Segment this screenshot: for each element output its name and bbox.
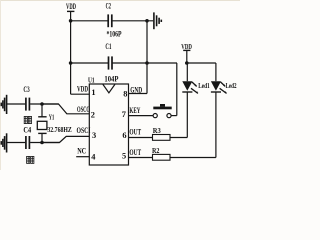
svg-text:32.768HZ: 32.768HZ [47, 125, 71, 134]
glyph box annotation below C3 [24, 116, 31, 123]
capacitor C1 [104, 42, 118, 84]
resistor R2 [152, 146, 216, 160]
diode LED2 [211, 63, 237, 158]
svg-text:VDD: VDD [66, 2, 76, 11]
svg-text:4: 4 [91, 152, 96, 161]
capacitor C4 [23, 126, 31, 150]
push button S1 [153, 104, 177, 118]
wire VDD branch to LED2 [187, 62, 216, 64]
node junction VDD branch [185, 61, 189, 65]
GND rail (vertical, right of IC) [146, 21, 148, 94]
pin 3 OSCI wire [42, 136, 89, 142]
svg-text:7: 7 [122, 110, 126, 119]
svg-text:Led1: Led1 [198, 82, 210, 90]
svg-text:VDD: VDD [181, 42, 192, 51]
ground (left of C4) [1, 133, 6, 152]
power symbol VDD (right) [181, 42, 192, 63]
wire key riser [176, 63, 178, 116]
svg-text:5: 5 [122, 152, 126, 161]
svg-text:KEY: KEY [129, 106, 140, 115]
svg-text:Led2: Led2 [226, 82, 237, 90]
node junction GND rail / C2 [145, 19, 149, 23]
window edge left [0, 0, 1, 170]
svg-text:U1: U1 [88, 75, 95, 84]
svg-text:6: 6 [122, 131, 126, 140]
svg-text:C4: C4 [23, 126, 31, 135]
svg-text:VDD: VDD [77, 84, 88, 93]
svg-text:C2: C2 [106, 1, 111, 10]
svg-text:104P: 104P [104, 75, 118, 84]
svg-text:OUT: OUT [129, 148, 141, 157]
node junction VDD rail / C1 [69, 61, 73, 65]
wire C4 to Y1 node [30, 142, 59, 144]
diode LED1 [182, 63, 210, 138]
svg-text:NC: NC [77, 147, 86, 156]
wire C3 to Y1 node [30, 103, 58, 105]
svg-text:1: 1 [91, 88, 95, 97]
svg-text:3: 3 [92, 131, 96, 140]
crystal Y1 [37, 104, 72, 143]
svg-text:8: 8 [123, 90, 127, 99]
node junction GND rail / C1 [145, 61, 149, 65]
notch [103, 84, 115, 92]
resistor R3 [153, 126, 188, 140]
capacitor C2 [106, 1, 122, 38]
svg-text:Y1: Y1 [49, 114, 55, 122]
window edge top [0, 0, 240, 1]
svg-text:GND: GND [130, 86, 142, 95]
svg-text:*106P: *106P [107, 30, 122, 39]
capacitor C3 [23, 85, 29, 111]
pin 8 GND wire [129, 93, 148, 95]
node junction Y1 bottom [40, 141, 44, 145]
pin 7 KEY wire [129, 115, 154, 117]
pin 5 OUT wire [129, 157, 153, 159]
pin 2 OSCO wire [42, 104, 89, 114]
power symbol VDD (top left) [66, 2, 76, 94]
svg-text:R3: R3 [153, 126, 161, 135]
ground (left of C3) [1, 95, 6, 114]
wire C1 row (VDD rail to key riser) [71, 62, 108, 64]
op IC U1 body [88, 75, 129, 165]
svg-text:C1: C1 [105, 42, 111, 51]
pin 4 NC stub [76, 156, 89, 158]
wire C2 to ground [112, 20, 153, 22]
pin 6 OUT wire [129, 137, 153, 139]
svg-text:C3: C3 [23, 85, 29, 94]
svg-text:2: 2 [91, 110, 95, 119]
pin 1 VDD wire [71, 93, 90, 95]
svg-text:OSCI: OSCI [77, 126, 91, 135]
glyph box annotation below C4 [27, 156, 34, 163]
wire ground to C4 [7, 142, 26, 144]
ground (top right, rotated) [154, 12, 161, 29]
node junction Y1 top [40, 102, 44, 106]
wire C2 row [71, 20, 108, 22]
node junction VDD rail / C2 [69, 19, 73, 23]
svg-text:OUT: OUT [129, 127, 141, 136]
svg-text:OSCO: OSCO [77, 105, 90, 114]
wire ground to C3 [7, 103, 26, 105]
